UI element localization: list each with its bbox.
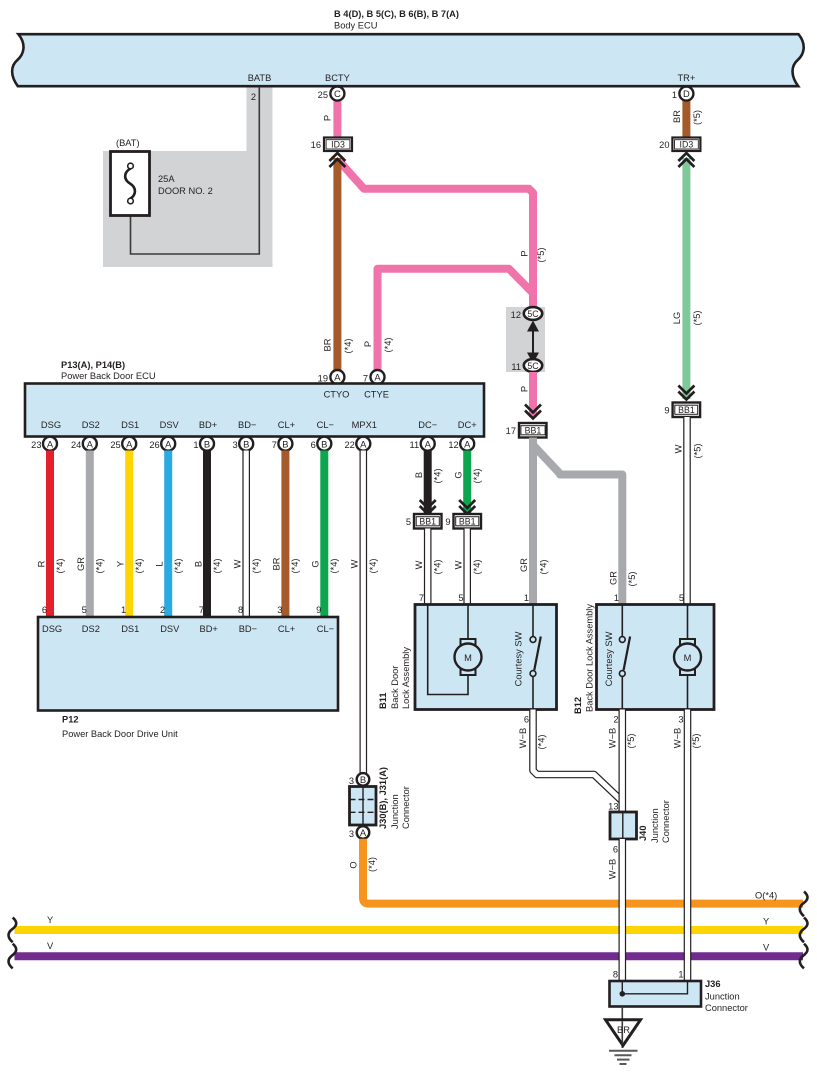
- B11 Back Door Lock Assembly box: [415, 605, 557, 710]
- svg-text:B11: B11: [378, 692, 388, 709]
- svg-text:22: 22: [344, 440, 354, 450]
- wire W-B from B12 pin2 to J40: [618, 710, 626, 813]
- wire Y DS1: [125, 451, 133, 618]
- svg-text:BCTY: BCTY: [325, 73, 350, 83]
- 5C in-line connector: [506, 307, 545, 372]
- wire W to B12 pin5: [683, 417, 691, 604]
- B12 internal motor wire: [687, 605, 689, 640]
- svg-text:(*4): (*4): [134, 559, 144, 574]
- svg-text:A: A: [334, 372, 341, 383]
- svg-text:(*5): (*5): [626, 734, 636, 749]
- svg-text:BB1: BB1: [525, 426, 542, 436]
- svg-text:ID3: ID3: [680, 139, 694, 149]
- svg-text:BB1: BB1: [419, 517, 436, 527]
- wire pink CTYE to 5C: [378, 269, 533, 372]
- svg-text:Connector: Connector: [401, 786, 411, 829]
- svg-text:5C: 5C: [527, 309, 539, 319]
- svg-text:C: C: [334, 88, 341, 99]
- wire W-B from J40 to J36: [618, 839, 626, 981]
- svg-text:B: B: [204, 438, 210, 449]
- svg-text:1: 1: [193, 440, 198, 450]
- wire W BB1 to B11 pin7: [424, 529, 432, 605]
- svg-text:8: 8: [238, 605, 243, 615]
- svg-text:Courtesy SW: Courtesy SW: [604, 631, 614, 686]
- svg-text:BATB: BATB: [248, 73, 272, 83]
- svg-text:(*5): (*5): [627, 572, 637, 587]
- svg-text:CL−: CL−: [317, 624, 334, 634]
- svg-text:W−B: W−B: [518, 728, 528, 748]
- connector 9 BB1 (DC+): [445, 514, 481, 529]
- svg-text:V: V: [763, 943, 770, 953]
- connector 5 BB1: [406, 514, 442, 529]
- svg-text:(*4): (*4): [329, 559, 339, 574]
- P12 Power Back Door Drive Unit box: [38, 617, 338, 711]
- svg-text:6: 6: [524, 715, 529, 725]
- svg-text:B: B: [193, 561, 203, 567]
- svg-text:Power Back Door ECU: Power Back Door ECU: [61, 371, 156, 381]
- svg-text:1: 1: [678, 970, 683, 980]
- svg-text:(*4): (*4): [472, 469, 482, 484]
- wire pink 5C to BB1: [529, 372, 537, 417]
- wire W MPX1: [359, 451, 367, 774]
- svg-text:CL+: CL+: [278, 420, 295, 430]
- connector 9 BB1: [664, 403, 700, 418]
- svg-text:11: 11: [511, 362, 521, 372]
- svg-text:7: 7: [419, 593, 424, 603]
- svg-text:24: 24: [71, 440, 81, 450]
- wire L DSV: [164, 451, 172, 618]
- svg-text:17: 17: [506, 426, 516, 436]
- ground symbol: [609, 1051, 638, 1064]
- svg-text:J36: J36: [705, 979, 721, 989]
- svg-text:2: 2: [251, 92, 256, 102]
- svg-text:P: P: [363, 341, 373, 347]
- chevron up under 16 ID3: [329, 153, 345, 167]
- svg-text:Lock Assembly: Lock Assembly: [401, 647, 411, 709]
- svg-text:Y: Y: [115, 561, 125, 567]
- ground triangle: [606, 1020, 641, 1046]
- svg-text:CL+: CL+: [278, 624, 295, 634]
- svg-text:P13(A), P14(B): P13(A), P14(B): [61, 360, 125, 370]
- chevron down above 17 BB1: [525, 405, 541, 419]
- svg-text:P12: P12: [62, 715, 79, 725]
- svg-text:A: A: [47, 438, 54, 449]
- pin 25 C BCTY: [318, 87, 345, 101]
- band V purple: [15, 952, 804, 960]
- wire R DSG: [46, 451, 54, 618]
- svg-text:LG: LG: [672, 312, 682, 324]
- svg-text:(BAT): (BAT): [116, 138, 140, 148]
- svg-text:V: V: [47, 941, 54, 951]
- svg-text:3: 3: [678, 715, 683, 725]
- svg-text:(*4): (*4): [538, 560, 548, 575]
- svg-text:BR: BR: [272, 557, 282, 570]
- wire P BCTY pink: [333, 100, 341, 138]
- svg-text:6: 6: [311, 440, 316, 450]
- motor M B11: [455, 639, 482, 675]
- svg-text:Y: Y: [47, 915, 53, 925]
- motor M B12: [674, 639, 701, 675]
- svg-text:CL−: CL−: [317, 420, 334, 430]
- svg-text:Back Door Lock Assembly: Back Door Lock Assembly: [585, 604, 595, 712]
- svg-text:(*4): (*4): [290, 559, 300, 574]
- svg-text:(*4): (*4): [383, 338, 393, 353]
- svg-text:P: P: [519, 250, 529, 256]
- svg-text:7: 7: [272, 440, 277, 450]
- svg-text:A: A: [425, 438, 432, 449]
- svg-text:B: B: [360, 774, 366, 785]
- svg-text:Junction: Junction: [390, 794, 400, 829]
- svg-text:O(*4): O(*4): [755, 891, 777, 901]
- svg-text:26: 26: [149, 440, 159, 450]
- B11 top pin numbers: [419, 593, 529, 603]
- svg-text:GR: GR: [76, 557, 86, 571]
- wire fuse to BATB: [131, 87, 260, 254]
- svg-text:2: 2: [613, 715, 618, 725]
- svg-text:(*4): (*4): [55, 559, 65, 574]
- svg-text:1: 1: [614, 593, 619, 603]
- chevron down above 9 BB1: [678, 386, 694, 400]
- svg-text:BB1: BB1: [459, 517, 476, 527]
- svg-text:(*4): (*4): [536, 735, 546, 750]
- svg-text:25: 25: [110, 440, 120, 450]
- svg-text:(*4): (*4): [251, 559, 261, 574]
- svg-text:16: 16: [311, 140, 321, 150]
- svg-text:5: 5: [679, 593, 684, 603]
- svg-text:9: 9: [445, 517, 450, 527]
- svg-text:Junction: Junction: [650, 808, 660, 843]
- wire G CL-: [320, 451, 328, 618]
- svg-text:3: 3: [233, 440, 238, 450]
- svg-text:W: W: [414, 560, 424, 569]
- svg-text:3: 3: [349, 776, 354, 786]
- svg-text:(*5): (*5): [692, 110, 702, 125]
- svg-text:BR: BR: [617, 1025, 630, 1035]
- svg-text:8: 8: [613, 970, 618, 980]
- courtesy switch B12: [619, 605, 630, 710]
- svg-text:(*5): (*5): [692, 444, 702, 459]
- svg-text:O: O: [348, 861, 358, 868]
- svg-text:(*4): (*4): [212, 559, 222, 574]
- svg-text:Courtesy SW: Courtesy SW: [513, 631, 523, 686]
- svg-text:W−B: W−B: [607, 728, 617, 748]
- svg-text:19: 19: [318, 374, 328, 384]
- svg-text:13: 13: [608, 802, 618, 812]
- B12 Back Door Lock Assembly box: [597, 605, 715, 710]
- wire B BD+: [203, 451, 211, 618]
- svg-text:7: 7: [199, 605, 204, 615]
- wire J36 to ground: [621, 1007, 623, 1049]
- svg-text:(*5): (*5): [691, 734, 701, 749]
- svg-text:P: P: [322, 115, 332, 121]
- wire LG: [682, 158, 690, 399]
- wire G DC+: [463, 451, 471, 514]
- svg-text:MPX1: MPX1: [352, 420, 377, 430]
- junction connector J30(B) J31(A): [350, 787, 377, 826]
- svg-text:1: 1: [524, 593, 529, 603]
- svg-text:BR: BR: [672, 110, 682, 123]
- svg-text:G: G: [311, 560, 321, 567]
- svg-text:6: 6: [613, 845, 618, 855]
- svg-text:(*4): (*4): [343, 339, 353, 354]
- svg-text:DC+: DC+: [458, 420, 477, 430]
- wire GR to B11: [529, 438, 537, 605]
- svg-text:W: W: [232, 559, 242, 568]
- svg-text:A: A: [464, 438, 471, 449]
- svg-text:(*4): (*4): [367, 857, 377, 872]
- svg-text:1: 1: [121, 605, 126, 615]
- svg-text:Connector: Connector: [661, 800, 671, 843]
- svg-text:ID3: ID3: [331, 139, 345, 149]
- svg-text:G: G: [453, 471, 463, 478]
- svg-text:11: 11: [410, 440, 420, 450]
- svg-text:DC−: DC−: [418, 420, 437, 430]
- svg-text:TR+: TR+: [677, 73, 695, 83]
- svg-text:12: 12: [511, 310, 521, 320]
- svg-text:GR: GR: [608, 571, 618, 585]
- svg-text:DS2: DS2: [82, 420, 100, 430]
- svg-text:L: L: [154, 561, 164, 566]
- junction connector J40: [610, 812, 637, 839]
- wire GR DS2: [86, 451, 94, 618]
- connector 16 ID3: [311, 138, 352, 152]
- svg-text:5: 5: [406, 517, 411, 527]
- svg-text:B: B: [282, 438, 288, 449]
- svg-text:(*4): (*4): [472, 560, 482, 575]
- svg-text:J30(B), J31(A): J30(B), J31(A): [378, 767, 388, 829]
- svg-text:B: B: [243, 438, 249, 449]
- svg-text:5C: 5C: [527, 361, 539, 371]
- svg-text:CTYE: CTYE: [364, 390, 389, 400]
- connector 20 ID3: [659, 138, 700, 152]
- pin 3 A of J30: [349, 826, 369, 839]
- svg-text:M: M: [464, 653, 472, 663]
- svg-text:(*4): (*4): [432, 469, 442, 484]
- svg-text:DSG: DSG: [41, 420, 61, 430]
- svg-text:1: 1: [672, 90, 677, 100]
- svg-text:A: A: [360, 438, 367, 449]
- wire color labels column: [36, 557, 378, 574]
- svg-text:A: A: [126, 438, 133, 449]
- svg-text:5: 5: [458, 593, 463, 603]
- svg-text:3: 3: [277, 605, 282, 615]
- wire O orange to band: [363, 839, 803, 904]
- svg-text:(*5): (*5): [536, 248, 546, 263]
- wire BR CTYO brown: [333, 158, 341, 376]
- wire BR CL+: [281, 451, 289, 618]
- svg-text:9: 9: [316, 605, 321, 615]
- svg-text:7: 7: [363, 374, 368, 384]
- svg-text:W: W: [350, 559, 360, 568]
- wire W-B from B11 pin6: [533, 710, 623, 802]
- wire BR TR+: [682, 100, 690, 138]
- svg-text:A: A: [165, 438, 172, 449]
- band Y yellow: [15, 926, 804, 934]
- svg-text:12: 12: [448, 440, 458, 450]
- svg-text:W−B: W−B: [672, 728, 682, 748]
- svg-text:DSV: DSV: [160, 420, 180, 430]
- wire GR branch to B12: [533, 445, 622, 604]
- chevron down above 5 BB1: [420, 500, 436, 514]
- pin 1 D TR+: [672, 87, 694, 101]
- svg-text:5: 5: [82, 605, 87, 615]
- chevron up under 20 ID3: [678, 153, 694, 167]
- wire B DC-: [424, 451, 432, 514]
- B12 top pin numbers: [614, 593, 684, 603]
- svg-text:Connector: Connector: [705, 1003, 748, 1013]
- svg-text:(*4): (*4): [95, 559, 105, 574]
- svg-text:J40: J40: [638, 825, 648, 841]
- pin 7 A CTYE: [363, 370, 385, 384]
- svg-text:Junction: Junction: [705, 992, 740, 1002]
- svg-text:BD+: BD+: [200, 624, 218, 634]
- svg-text:BD−: BD−: [239, 624, 257, 634]
- pin 19 A CTYO: [318, 370, 345, 384]
- svg-text:D: D: [683, 88, 690, 99]
- wire W-B from B12 pin3 to J36: [684, 710, 692, 982]
- svg-text:W−B: W−B: [607, 859, 617, 879]
- svg-text:(*4): (*4): [432, 560, 442, 575]
- connector 17 BB1: [506, 423, 547, 438]
- svg-text:DSG: DSG: [42, 624, 62, 634]
- Power Back Door ECU box: [25, 384, 484, 437]
- svg-text:20: 20: [659, 140, 669, 150]
- svg-text:(*4): (*4): [368, 559, 378, 574]
- svg-text:(*5): (*5): [692, 311, 702, 326]
- pin 3 B of J30: [349, 773, 369, 786]
- svg-text:GR: GR: [519, 558, 529, 572]
- svg-text:DSV: DSV: [160, 624, 180, 634]
- svg-text:BD−: BD−: [238, 420, 256, 430]
- svg-text:3: 3: [349, 829, 354, 839]
- junction connector J36: [610, 981, 702, 1007]
- P12 pin numbers: [42, 605, 321, 615]
- wire pink ID3 to 5C: [340, 162, 533, 307]
- svg-text:BD+: BD+: [199, 420, 217, 430]
- wire W BD-: [242, 451, 250, 618]
- svg-text:DS1: DS1: [121, 624, 139, 634]
- svg-text:B: B: [321, 438, 327, 449]
- svg-text:A: A: [374, 372, 381, 383]
- svg-text:9: 9: [664, 406, 669, 416]
- svg-text:6: 6: [42, 605, 47, 615]
- svg-text:B 4(D), B 5(C), B 6(B), B 7(A): B 4(D), B 5(C), B 6(B), B 7(A): [334, 9, 459, 19]
- svg-text:25A: 25A: [158, 174, 175, 184]
- fuse 25A DOOR NO.2: [111, 152, 150, 216]
- svg-text:W: W: [673, 444, 683, 453]
- svg-text:CTYO: CTYO: [324, 390, 350, 400]
- ECU bottom pin name labels: [41, 420, 477, 430]
- svg-text:Body ECU: Body ECU: [334, 20, 377, 30]
- B11 internal motor loop wire: [428, 605, 468, 695]
- chevron down above 9 BB1 (DC+): [459, 500, 475, 514]
- svg-text:R: R: [36, 560, 46, 567]
- svg-text:W: W: [453, 560, 463, 569]
- svg-text:DS2: DS2: [82, 624, 100, 634]
- svg-text:A: A: [360, 827, 367, 838]
- svg-text:Y: Y: [763, 917, 769, 927]
- svg-text:B12: B12: [573, 697, 583, 714]
- svg-text:DS1: DS1: [121, 420, 139, 430]
- svg-text:Back Door: Back Door: [390, 666, 400, 709]
- Body ECU band: [12, 34, 804, 86]
- svg-text:P: P: [519, 386, 529, 392]
- svg-text:B: B: [414, 472, 424, 478]
- shaded battery supply region: [103, 87, 273, 267]
- band O right squiggle: [800, 892, 808, 917]
- svg-text:M: M: [684, 653, 692, 663]
- svg-text:25: 25: [318, 90, 328, 100]
- svg-text:A: A: [87, 438, 94, 449]
- svg-text:2: 2: [160, 605, 165, 615]
- svg-text:Power Back Door Drive Unit: Power Back Door Drive Unit: [62, 729, 178, 739]
- svg-text:23: 23: [31, 440, 41, 450]
- svg-text:DOOR NO. 2: DOOR NO. 2: [158, 186, 213, 196]
- wire W BB1 to B11 pin5: [463, 529, 471, 605]
- svg-text:BB1: BB1: [678, 405, 695, 415]
- svg-text:(*4): (*4): [173, 559, 183, 574]
- ECU bottom pin circles: [31, 437, 474, 451]
- courtesy switch B11: [530, 605, 541, 710]
- svg-text:BR: BR: [322, 338, 332, 351]
